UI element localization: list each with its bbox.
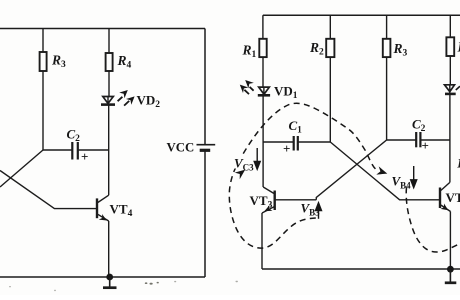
wire R3 branch bottom xyxy=(42,71,44,150)
battery VCC wires xyxy=(204,29,206,278)
resistor R1 xyxy=(259,39,266,57)
wire R4 branch top (right) xyxy=(449,15,451,37)
arrow VB4 down xyxy=(411,166,417,188)
capacitor C2 (right) plates xyxy=(416,132,420,147)
LED VD (right, cut) xyxy=(445,85,456,94)
capacitor C2 (right) wire left xyxy=(387,139,416,141)
capacitor C2 (left) wire right xyxy=(78,149,109,151)
wire R2 branch top xyxy=(329,15,331,39)
wire R4 to VD2 xyxy=(108,71,110,97)
svg-text:R: R xyxy=(456,156,460,171)
dashed loop arrowhead near VB4 xyxy=(376,166,387,174)
VD1 light arrows xyxy=(240,80,254,94)
wire cross-coupling D2 (left circuit) xyxy=(0,171,96,209)
resistor R4 (right) xyxy=(446,37,454,56)
LED VD2 xyxy=(101,97,115,105)
wire R3 branch top xyxy=(42,29,44,53)
resistor R2 xyxy=(326,39,334,57)
wire R4 to LED (right) xyxy=(449,56,451,85)
arrow VB3 up xyxy=(316,203,322,219)
wire R3 branch top (right) xyxy=(386,15,388,39)
junction dot (right circuit) xyxy=(447,266,454,273)
svg-text:+: + xyxy=(81,149,88,164)
capacitor C1 wire left xyxy=(263,141,293,143)
resistor R3 (right) xyxy=(383,39,391,57)
svg-text:+: + xyxy=(422,138,429,153)
wire R1 to VD1 xyxy=(262,57,264,87)
wire VD2 to collector corner xyxy=(108,106,110,196)
capacitor C1 plates xyxy=(294,136,298,151)
wire R2 to C1 junction xyxy=(329,57,331,142)
wire cross-coupling D3 xyxy=(330,142,440,200)
capacitor C2 (right) wire right xyxy=(420,139,449,141)
wire R4 branch top xyxy=(108,29,110,54)
svg-text:+: + xyxy=(283,141,290,156)
LED VD1 xyxy=(258,87,270,95)
wire VT4 emitter down xyxy=(108,221,110,277)
wire R3 to C2 junction xyxy=(386,57,388,140)
dashed loop arrowhead near VC3 xyxy=(235,170,246,180)
resistor R4 (left) xyxy=(106,53,113,71)
dashed current loop (right, VB4 down around VT4) xyxy=(406,188,460,253)
svg-text:R: R xyxy=(457,40,460,55)
ground (left circuit) xyxy=(103,277,117,288)
ground (right circuit) xyxy=(445,269,457,283)
wire VT3 base xyxy=(275,199,317,201)
wire VT3 emitter down xyxy=(261,213,263,269)
wire top rail (right circuit) xyxy=(263,14,460,16)
wire top rail (left circuit) xyxy=(0,28,205,30)
transistor VT4 (right) xyxy=(440,183,451,212)
wire LED to collector corner (right) xyxy=(449,95,451,183)
svg-text:VCC: VCC xyxy=(167,140,195,154)
transistor VT3 xyxy=(262,187,275,213)
dashed current loop (left, VC3 to VB3 over C1) xyxy=(229,103,378,248)
wire VT4 emitter down (right) xyxy=(449,212,451,270)
wire cross-coupling D1 (left circuit) xyxy=(0,150,43,187)
wire cross-coupling D4 xyxy=(316,140,386,200)
svg-text:VT4: VT4 xyxy=(446,190,460,208)
label VC3 xyxy=(234,157,254,169)
capacitor C1 wire right xyxy=(298,141,331,143)
transistor VT4 (left) xyxy=(97,195,109,221)
wire R1 branch top xyxy=(262,15,264,39)
resistor R3 (left) xyxy=(40,52,47,71)
wire bottom rail (left circuit) xyxy=(0,276,205,278)
VD right light arrow fragment xyxy=(456,86,460,90)
junction dot (left circuit) xyxy=(106,274,113,281)
arrow VC3 down xyxy=(254,148,260,169)
wire VD1 to collector corner xyxy=(262,96,264,187)
scan noise specks xyxy=(9,281,238,291)
VD2 light arrows xyxy=(118,90,135,106)
wire bottom rail (right circuit) xyxy=(262,268,460,270)
capacitor C2 (left) wire left xyxy=(43,149,72,151)
capacitor C2 (left) plates xyxy=(72,142,78,160)
battery VCC plates xyxy=(197,145,216,151)
